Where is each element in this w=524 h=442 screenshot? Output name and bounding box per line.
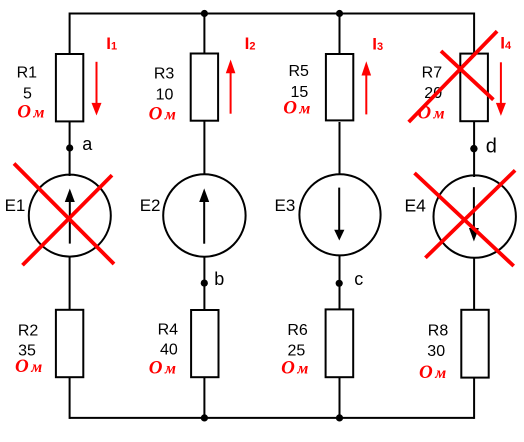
wire top bus [70,13,475,15]
svg-text:Ом: Ом [17,102,44,123]
node a [66,144,73,151]
svg-text:d: d [486,136,497,158]
source E1 arrow (up) [69,200,71,244]
deletion cross on R7 [441,51,493,100]
junction top bus / branch 3 [336,10,343,17]
svg-text:R1: R1 [17,65,38,82]
wire R8 to bottom bus [473,378,475,419]
source E2 arrow (up) [203,200,205,244]
svg-text:R8: R8 [428,322,449,339]
wire R7 to E4 [473,122,475,177]
wire R6 to bottom bus [339,377,341,419]
node b [201,280,208,287]
current arrow I4 (down) [500,62,502,104]
resistor R2 [56,310,83,377]
svg-text:30: 30 [427,343,445,360]
current arrow I1 (down) [96,62,98,104]
source E3 [299,174,380,255]
wire branch 1 top stub [69,13,71,56]
current arrow I3 (up) [365,75,367,115]
wire R5 to E3 [339,122,341,175]
source E3 arrow (down) [338,188,340,232]
svg-text:Ом: Ом [15,356,42,377]
wire E4 to R8 [473,258,475,310]
resistor R7 [460,54,488,122]
svg-text:R6: R6 [287,322,308,339]
svg-text:Ом: Ом [149,358,176,379]
resistor R5 [326,54,353,120]
wire branch 3 top stub [339,14,341,56]
svg-text:Ом: Ом [283,98,310,119]
junction top bus / branch 2 [201,10,208,17]
svg-text:R2: R2 [18,322,39,339]
wire E1 to R2 [69,257,71,310]
wire E3 to R6 [339,255,341,309]
svg-text:c: c [354,269,363,289]
resistor R3 [191,54,218,121]
svg-text:R7: R7 [422,64,443,81]
node c [336,280,343,287]
wire bottom bus [70,417,475,419]
wire R1 to E1 [69,121,71,176]
wire R4 to bottom bus [203,378,205,419]
svg-text:R5: R5 [288,63,309,80]
deletion cross on E1 [14,164,114,265]
source E4 [434,175,516,257]
svg-text:b: b [214,269,224,289]
svg-text:R3: R3 [154,65,175,82]
svg-text:E4: E4 [405,195,427,215]
svg-text:Ом: Ом [419,362,446,383]
svg-text:E3: E3 [275,196,296,215]
current arrow I2 (up) [230,73,232,114]
wire R3 to E2 [203,121,205,175]
source E1 [29,175,111,257]
source E2 [163,174,245,256]
junction bottom bus / branch 3 [336,414,343,421]
svg-text:5: 5 [23,86,32,103]
wire R2 to bottom bus [69,378,71,419]
junction bottom bus / branch 2 [201,414,208,421]
node d [470,145,477,152]
svg-text:Ом: Ом [281,358,308,379]
svg-text:10: 10 [156,86,174,103]
source E4 arrow (down) [473,187,475,230]
svg-text:R4: R4 [158,322,179,339]
svg-text:a: a [82,134,93,154]
resistor R8 [461,310,488,378]
resistor R6 [326,309,354,377]
svg-text:E2: E2 [140,196,161,215]
deletion cross on E4 [415,173,514,266]
svg-text:40: 40 [160,342,178,359]
resistor R4 [191,310,218,377]
wire branch 4 top stub [473,13,475,55]
svg-text:E1: E1 [5,196,26,215]
svg-text:Ом: Ом [417,102,444,123]
resistor R1 [56,54,83,121]
wire branch 2 top stub [203,14,205,55]
wire E2 to R4 [203,257,205,310]
svg-text:Ом: Ом [149,104,176,125]
